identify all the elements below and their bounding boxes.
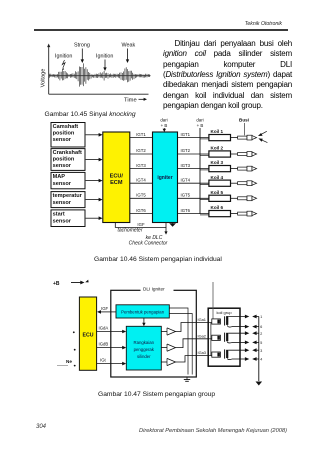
coil Koil 2 bbox=[209, 146, 231, 157]
transformer T3 primary bbox=[208, 352, 220, 357]
wire IGT2: igniter to coil 2 bbox=[178, 148, 210, 155]
wire IGT5: igniter to coil 5 bbox=[178, 193, 210, 200]
svg-text:Koil 4: Koil 4 bbox=[211, 175, 224, 180]
svg-text:Koil 6: Koil 6 bbox=[211, 205, 224, 210]
svg-text:Weak: Weak bbox=[122, 43, 136, 49]
label ke DLC / Check Connector bbox=[129, 235, 168, 247]
footer: publisher bbox=[139, 428, 287, 434]
svg-text:IGT1: IGT1 bbox=[136, 132, 146, 137]
wire: to DLC check connector bbox=[164, 227, 167, 234]
coil Koil 1 bbox=[209, 129, 231, 141]
pembentuk pengapian block bbox=[116, 305, 169, 318]
svg-text:sensor: sensor bbox=[53, 181, 72, 187]
svg-text:sensor: sensor bbox=[53, 219, 72, 225]
svg-text:Busi: Busi bbox=[239, 118, 249, 123]
svg-text:IGT2: IGT2 bbox=[136, 148, 146, 153]
spark plug 3 bbox=[231, 166, 257, 171]
wire driver 3 output to IGa3 bbox=[176, 350, 209, 362]
wire IGT5: ECU to igniter bbox=[130, 193, 153, 199]
svg-text:sensor: sensor bbox=[53, 137, 72, 143]
svg-text:Ignition: Ignition bbox=[96, 54, 113, 60]
wire: MAP sensor to ECU bbox=[86, 179, 103, 183]
sensor box: Crankshaft position sensor bbox=[51, 149, 85, 171]
svg-text:IGF: IGF bbox=[137, 222, 145, 227]
driver Q1 bbox=[161, 328, 175, 335]
svg-text:IGT5: IGT5 bbox=[136, 193, 146, 198]
wire T3 secondary outputs bbox=[228, 350, 245, 359]
spark gap cylinder 5 bbox=[245, 341, 262, 346]
sensor box: Camshaft position sensor bbox=[51, 123, 85, 148]
svg-text:4: 4 bbox=[260, 358, 262, 362]
wire IGt bbox=[97, 358, 127, 366]
svg-text:IGT5: IGT5 bbox=[181, 193, 191, 198]
transformer T3 secondary bbox=[226, 350, 231, 360]
svg-text:IGF: IGF bbox=[101, 306, 109, 311]
label Busi + pointer bbox=[239, 118, 249, 136]
coil Koil 3 bbox=[209, 160, 231, 172]
transformer T2 primary bbox=[208, 335, 220, 340]
svg-text:temperatur: temperatur bbox=[53, 193, 83, 199]
svg-text:5: 5 bbox=[260, 341, 262, 345]
wire: temperature sensor to ECU bbox=[86, 198, 103, 202]
svg-text:ECU: ECU bbox=[83, 333, 94, 339]
wire driver 1 output to IGa1 bbox=[176, 317, 209, 331]
caption 10.45 bbox=[45, 111, 136, 118]
svg-text:position: position bbox=[53, 157, 75, 163]
koil group box bbox=[208, 308, 240, 366]
svg-text:Time: Time bbox=[124, 98, 137, 104]
transformer T2 core bbox=[224, 333, 226, 342]
svg-text:Camshaft: Camshaft bbox=[53, 124, 79, 130]
svg-text:IGT1: IGT1 bbox=[181, 132, 191, 137]
wire: Camshaft position sensor to ECU bbox=[86, 133, 103, 137]
label tachometer bbox=[117, 227, 142, 233]
svg-text:+ B: + B bbox=[161, 123, 168, 128]
svg-text:igniter: igniter bbox=[157, 175, 172, 181]
transformer T1 core bbox=[224, 316, 226, 325]
ECU block bbox=[79, 297, 96, 370]
svg-text:+B: +B bbox=[53, 281, 60, 287]
label Ignition 2 + arrow bbox=[96, 54, 113, 72]
wire IGT1: ECU to igniter bbox=[130, 132, 153, 138]
coil Koil 6 bbox=[209, 205, 231, 217]
label +B with arrow bbox=[53, 280, 89, 287]
svg-text:IGT3: IGT3 bbox=[136, 163, 146, 168]
figure 10.45: knocking waveform bbox=[34, 38, 158, 108]
svg-text:IGT6: IGT6 bbox=[181, 208, 191, 213]
label dari +B (igniter supply) bbox=[160, 117, 167, 128]
wire T1 secondary outputs bbox=[228, 317, 245, 327]
svg-text:IGT3: IGT3 bbox=[181, 163, 191, 168]
svg-text:IGT4: IGT4 bbox=[136, 177, 146, 182]
driver Q3 bbox=[161, 358, 175, 365]
wire: pembentuk feedback verticals bbox=[169, 308, 192, 375]
svg-text:IGa2: IGa2 bbox=[198, 333, 206, 338]
header: running title bbox=[200, 21, 282, 27]
spark gap cylinder 4 bbox=[245, 357, 262, 362]
svg-text:1: 1 bbox=[260, 315, 262, 319]
spark plug 5 bbox=[231, 196, 257, 201]
wire IGT6: ECU to igniter bbox=[130, 208, 153, 214]
svg-text:Rangkaian: Rangkaian bbox=[134, 340, 155, 345]
DLI igniter outer box bbox=[111, 285, 197, 377]
svg-text:Koil 2: Koil 2 bbox=[211, 146, 224, 151]
label Voltage bbox=[41, 69, 47, 88]
wire IGT1: igniter to coil 1 bbox=[178, 132, 210, 139]
figure 10.47: group coil ignition system bbox=[40, 272, 280, 390]
svg-text:IGa3: IGa3 bbox=[198, 350, 206, 355]
ground: igniter case bbox=[184, 377, 190, 381]
label Weak + arrow bbox=[122, 43, 136, 64]
transformer T1 secondary bbox=[226, 316, 231, 327]
wire pembentuk to rangkaian bbox=[142, 318, 145, 326]
ground: igniter bbox=[169, 223, 176, 227]
svg-text:MAP: MAP bbox=[53, 174, 66, 180]
wire driver 2 output to IGa2 bbox=[176, 333, 209, 347]
svg-text:koil grup: koil grup bbox=[216, 310, 232, 315]
svg-text:dari: dari bbox=[160, 117, 167, 122]
driver Q2 bbox=[161, 344, 175, 351]
wire: Crankshaft position sensor to ECU bbox=[86, 158, 103, 162]
figure 10.46: individual coil ignition system bbox=[28, 113, 292, 250]
caption 10.46 bbox=[94, 256, 222, 263]
wire IGT4: ECU to igniter bbox=[130, 177, 153, 183]
svg-text:sensor: sensor bbox=[53, 163, 72, 169]
svg-text:dari: dari bbox=[196, 117, 203, 122]
wire IGT3: ECU to igniter bbox=[130, 163, 153, 169]
wire IGdB bbox=[97, 342, 127, 350]
wire: +B bus to coils bbox=[199, 128, 201, 214]
svg-text:IGdA: IGdA bbox=[99, 325, 109, 330]
svg-text:Koil 1: Koil 1 bbox=[211, 129, 224, 134]
svg-text:2: 2 bbox=[260, 332, 262, 336]
svg-text:penggerak: penggerak bbox=[134, 347, 155, 352]
node dot 1 bbox=[73, 331, 75, 333]
svg-text:Koil 3: Koil 3 bbox=[211, 160, 224, 165]
label dari +B (coil supply) bbox=[196, 117, 203, 128]
igniter block bbox=[153, 132, 178, 223]
wire IGdA bbox=[97, 325, 127, 333]
zero/center line bbox=[49, 75, 151, 77]
wire T2 secondary outputs bbox=[228, 333, 245, 342]
svg-text:IGt: IGt bbox=[100, 358, 107, 363]
transformer T2 secondary bbox=[226, 333, 231, 343]
svg-text:start: start bbox=[53, 211, 65, 217]
svg-text:Ne: Ne bbox=[66, 359, 72, 364]
coil Koil 5 bbox=[209, 190, 231, 202]
spark gap cylinder 3 bbox=[245, 348, 262, 352]
svg-text:IGa1: IGa1 bbox=[198, 317, 206, 322]
spark plug 2 bbox=[231, 152, 257, 157]
svg-text:position: position bbox=[53, 131, 75, 137]
wire IGT6: igniter to coil 6 bbox=[178, 208, 210, 215]
label Strong + arrow bbox=[74, 43, 90, 64]
time axis bbox=[49, 93, 149, 95]
svg-text:IGdB: IGdB bbox=[99, 342, 109, 347]
svg-text:DLI Igniter: DLI Igniter bbox=[143, 287, 165, 292]
svg-text:Voltage: Voltage bbox=[41, 69, 47, 88]
label Time bbox=[124, 98, 147, 104]
ground: HT bus bbox=[255, 382, 262, 386]
svg-text:Strong: Strong bbox=[74, 43, 90, 49]
spark gap cylinder 1 bbox=[245, 315, 262, 320]
footer: page number bbox=[36, 424, 46, 430]
svg-text:Check Connector: Check Connector bbox=[129, 241, 168, 247]
coil Koil 4 bbox=[209, 175, 231, 187]
svg-text:Crankshaft: Crankshaft bbox=[53, 150, 82, 156]
svg-text:ECU/: ECU/ bbox=[110, 174, 124, 180]
spark gap arrows at plug 1 bbox=[258, 131, 267, 142]
voltage axis bbox=[47, 44, 50, 95]
caption 10.47 bbox=[98, 391, 215, 398]
svg-text:sensor: sensor bbox=[53, 200, 72, 206]
header rule bbox=[34, 29, 288, 30]
wire: +B supply to koil group bbox=[212, 282, 214, 319]
wire: start sensor to ECU bbox=[86, 216, 103, 220]
wire IGF to ECU bbox=[97, 306, 116, 314]
spark plug 4 bbox=[231, 181, 257, 186]
svg-text:ECM: ECM bbox=[110, 180, 123, 186]
wire: common HT return bus bbox=[258, 317, 260, 382]
wire IGF: igniter to ECU (tachometer loop) bbox=[115, 222, 166, 228]
node dot 2 bbox=[74, 349, 76, 351]
svg-text:Ignition: Ignition bbox=[55, 54, 72, 60]
svg-text:3: 3 bbox=[260, 349, 262, 353]
wire IGT4: igniter to coil 4 bbox=[178, 177, 210, 184]
transformer T1 primary bbox=[208, 319, 220, 324]
svg-text:tachometer: tachometer bbox=[117, 227, 142, 233]
svg-text:IGT2: IGT2 bbox=[181, 148, 191, 153]
sensor box: temperature sensor bbox=[51, 192, 85, 208]
spark gap cylinder 2 bbox=[245, 331, 262, 335]
wire IGT3: igniter to coil 3 bbox=[178, 163, 210, 170]
svg-text:Koil 5: Koil 5 bbox=[211, 190, 224, 195]
paragraph bbox=[163, 39, 292, 111]
svg-text:6: 6 bbox=[260, 325, 262, 329]
waveform trace bbox=[50, 63, 150, 86]
spark plug 1 bbox=[231, 135, 257, 140]
wire: +B into igniter bbox=[163, 128, 166, 132]
svg-text:Pembentuk pengapian: Pembentuk pengapian bbox=[121, 310, 165, 315]
label Ne input bbox=[57, 359, 76, 366]
ECU/ECM block bbox=[103, 132, 130, 223]
rangkaian penggerak silinder block bbox=[126, 326, 161, 370]
label Ignition 1 + lightning arrow bbox=[55, 54, 72, 71]
svg-text:IGT4: IGT4 bbox=[181, 177, 191, 182]
spark gap cylinder 6 bbox=[245, 325, 262, 330]
spark plug 6 bbox=[231, 211, 257, 216]
svg-text:IGT6: IGT6 bbox=[136, 208, 146, 213]
sensor box: start sensor bbox=[51, 210, 85, 227]
sensor box: MAP sensor bbox=[51, 172, 85, 188]
wire IGT2: ECU to igniter bbox=[130, 148, 153, 154]
svg-text:+ B: + B bbox=[197, 123, 204, 128]
wire: primary chain bbox=[210, 323, 212, 356]
svg-text:silinder: silinder bbox=[137, 354, 151, 359]
transformer T3 core bbox=[224, 349, 226, 358]
